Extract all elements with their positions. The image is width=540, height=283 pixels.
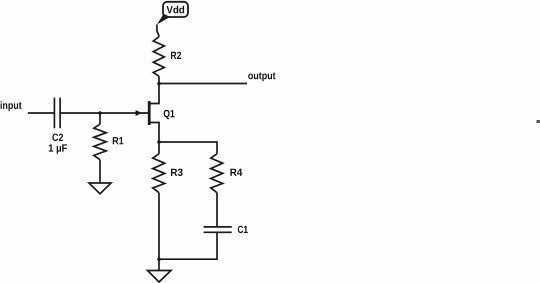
label R4 bbox=[230, 169, 242, 176]
wire C2 to gate bbox=[60, 112, 148, 114]
wire source node to R4 branch bbox=[159, 142, 217, 154]
node bottom junction bbox=[157, 257, 161, 261]
wire R3 to bottom node bbox=[158, 193, 160, 260]
capacitor C2 bbox=[54, 98, 60, 129]
net flag Vdd bbox=[157, 2, 188, 25]
node gate junction bbox=[98, 111, 102, 115]
wire input to C2 bbox=[28, 112, 55, 114]
wire bottom node to ground bbox=[158, 259, 160, 270]
transistor Q1 bbox=[148, 101, 151, 125]
node source junction bbox=[157, 140, 161, 144]
wire R1 to ground bbox=[99, 160, 101, 183]
resistor R2 bbox=[153, 37, 164, 77]
wire Vdd to R2 bbox=[157, 25, 159, 37]
wire R4 to C1 bbox=[216, 193, 218, 226]
wire R2 to drain node bbox=[158, 76, 160, 83]
label C1 bbox=[238, 226, 248, 233]
stray mark right edge bbox=[537, 120, 540, 123]
label 1 uF bbox=[49, 144, 67, 153]
gate arrow bbox=[136, 110, 142, 116]
label output bbox=[248, 72, 275, 81]
wire source node to R3 bbox=[158, 142, 160, 154]
label R2 bbox=[171, 52, 181, 59]
resistor R1 bbox=[94, 124, 106, 160]
resistor R4 bbox=[211, 154, 223, 193]
node drain junction bbox=[157, 82, 161, 86]
capacitor C1 bbox=[204, 227, 232, 232]
wire source lead bbox=[150, 123, 159, 143]
ground under bottom node bbox=[148, 271, 172, 283]
ground under R1 bbox=[89, 183, 111, 194]
resistor R3 bbox=[153, 154, 165, 193]
wire gate node to R1 bbox=[99, 113, 101, 124]
wire drain lead bbox=[150, 84, 159, 104]
wire output bbox=[159, 83, 247, 85]
wire C1 to bottom node bbox=[159, 232, 217, 259]
label input bbox=[1, 101, 22, 111]
label Q1 bbox=[164, 110, 175, 119]
label C2 bbox=[52, 134, 63, 141]
label R3 bbox=[171, 169, 183, 176]
label R1 bbox=[113, 137, 124, 144]
